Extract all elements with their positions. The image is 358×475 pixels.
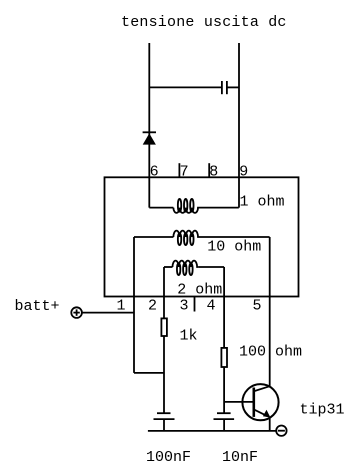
- svg-text:4: 4: [207, 298, 216, 315]
- wire pin5 vertical (coil2 right leg to collector): [269, 237, 271, 387]
- wire pin1 vertical (coil2 left leg): [133, 237, 135, 373]
- wire ground rail: [148, 430, 276, 432]
- battery positive terminal: [71, 307, 82, 318]
- wire top horizontal to capacitor: [149, 86, 222, 88]
- svg-text:6: 6: [150, 164, 159, 181]
- svg-text:3: 3: [180, 298, 189, 315]
- wire pin4 vertical (coil3 right leg through 100 ohm): [223, 267, 225, 413]
- wire coil1 right horizontal: [199, 207, 239, 209]
- wire coil1 left horizontal: [149, 207, 173, 209]
- capacitor C-out left plate: [221, 81, 223, 94]
- resistor R1 1k: [161, 318, 167, 336]
- svg-text:100nF: 100nF: [146, 449, 191, 466]
- resistor R2 100 ohm: [221, 348, 227, 367]
- transistor Q1 tip31: [242, 384, 278, 420]
- svg-text:10nF: 10nF: [222, 449, 258, 466]
- inductor L1 (1 ohm winding, loops up): [173, 199, 199, 213]
- wire junction horizontal (pin1 leg to pin2 leg): [134, 372, 164, 374]
- wire coil3 right horizontal: [198, 266, 224, 268]
- svg-text:1k: 1k: [180, 327, 198, 344]
- transformer box: [105, 177, 299, 296]
- capacitor C-out right plate: [226, 81, 228, 94]
- inductor L2 (10 ohm winding, humps up): [173, 231, 199, 245]
- svg-text:10 ohm: 10 ohm: [207, 238, 261, 255]
- diode D1: [143, 132, 156, 144]
- svg-text:tip31: tip31: [300, 401, 345, 418]
- capacitor C1 100nF: [154, 413, 175, 431]
- svg-text:batt+: batt+: [15, 298, 60, 315]
- wire capacitor to right lead: [227, 86, 239, 88]
- svg-text:9: 9: [239, 164, 248, 181]
- wire pin2 vertical (coil3 left leg through 1k): [163, 267, 165, 413]
- pin 3 tick: [194, 297, 196, 312]
- wire right dc output lead (top vertical): [238, 43, 240, 208]
- wire emitter vertical: [269, 418, 271, 431]
- svg-text:7: 7: [180, 164, 189, 181]
- capacitor C2 10nF: [214, 413, 235, 431]
- svg-text:5: 5: [253, 298, 262, 315]
- svg-text:2 ohm: 2 ohm: [177, 281, 222, 298]
- svg-text:8: 8: [209, 164, 218, 181]
- svg-text:2: 2: [148, 298, 157, 315]
- wire coil2 right horizontal: [199, 236, 270, 238]
- wire coil3 left horizontal: [164, 266, 173, 268]
- pin 7 tick: [178, 163, 180, 177]
- battery negative terminal: [276, 426, 286, 436]
- wire base horizontal: [224, 401, 254, 403]
- svg-text:tensione uscita dc: tensione uscita dc: [121, 14, 287, 31]
- wire left dc output lead (top vertical): [148, 43, 150, 208]
- inductor L3 (2 ohm winding, humps up): [173, 261, 199, 275]
- svg-text:1 ohm: 1 ohm: [240, 194, 285, 211]
- wire batt+ to pin1: [82, 312, 134, 314]
- wire coil2 left horizontal: [134, 236, 173, 238]
- pin 8 tick: [208, 163, 210, 177]
- svg-text:100 ohm: 100 ohm: [239, 343, 302, 360]
